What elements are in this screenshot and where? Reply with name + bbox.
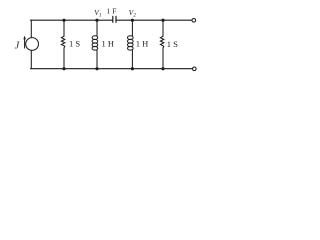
inductor L1 1H coil xyxy=(92,36,98,50)
svg-text:1 S: 1 S xyxy=(69,39,80,49)
output terminal top xyxy=(192,19,196,23)
resistor R1 1S zigzag xyxy=(61,36,64,48)
wire left branch lower xyxy=(30,50,32,68)
wire top left segment xyxy=(31,19,113,21)
node dot bottom R2 xyxy=(161,67,164,70)
node dot bottom R1 xyxy=(62,67,65,70)
output terminal bottom xyxy=(193,67,197,71)
svg-text:1 S: 1 S xyxy=(167,39,178,49)
inductor L2 1H coil xyxy=(128,36,134,50)
resistor R2 1S zigzag xyxy=(160,36,163,48)
inductor L1 1H branch leads xyxy=(96,20,98,68)
svg-text:V1: V1 xyxy=(94,8,102,19)
resistor R1 1S branch leads xyxy=(63,20,65,68)
svg-text:J: J xyxy=(15,41,20,52)
inductor L2 1H branch leads xyxy=(131,20,133,68)
svg-text:1 F: 1 F xyxy=(107,6,117,15)
node dot bottom L1 xyxy=(95,67,98,70)
node dot top R1 xyxy=(62,19,65,22)
capacitor C 1F plates xyxy=(113,16,116,22)
node dot top R2 xyxy=(161,19,164,22)
node dot bottom L2 xyxy=(131,67,134,70)
svg-text:1 H: 1 H xyxy=(102,39,115,49)
node V1 dot xyxy=(95,19,98,22)
wire left branch upper xyxy=(30,20,32,37)
current source arrow xyxy=(23,36,26,48)
svg-text:1 H: 1 H xyxy=(136,39,149,49)
node V2 dot xyxy=(131,19,134,22)
wire bottom xyxy=(31,68,193,70)
resistor R2 1S branch leads xyxy=(162,20,164,68)
wire top right segment xyxy=(116,19,192,21)
svg-text:V2: V2 xyxy=(129,8,137,19)
current source J circle xyxy=(26,38,39,51)
